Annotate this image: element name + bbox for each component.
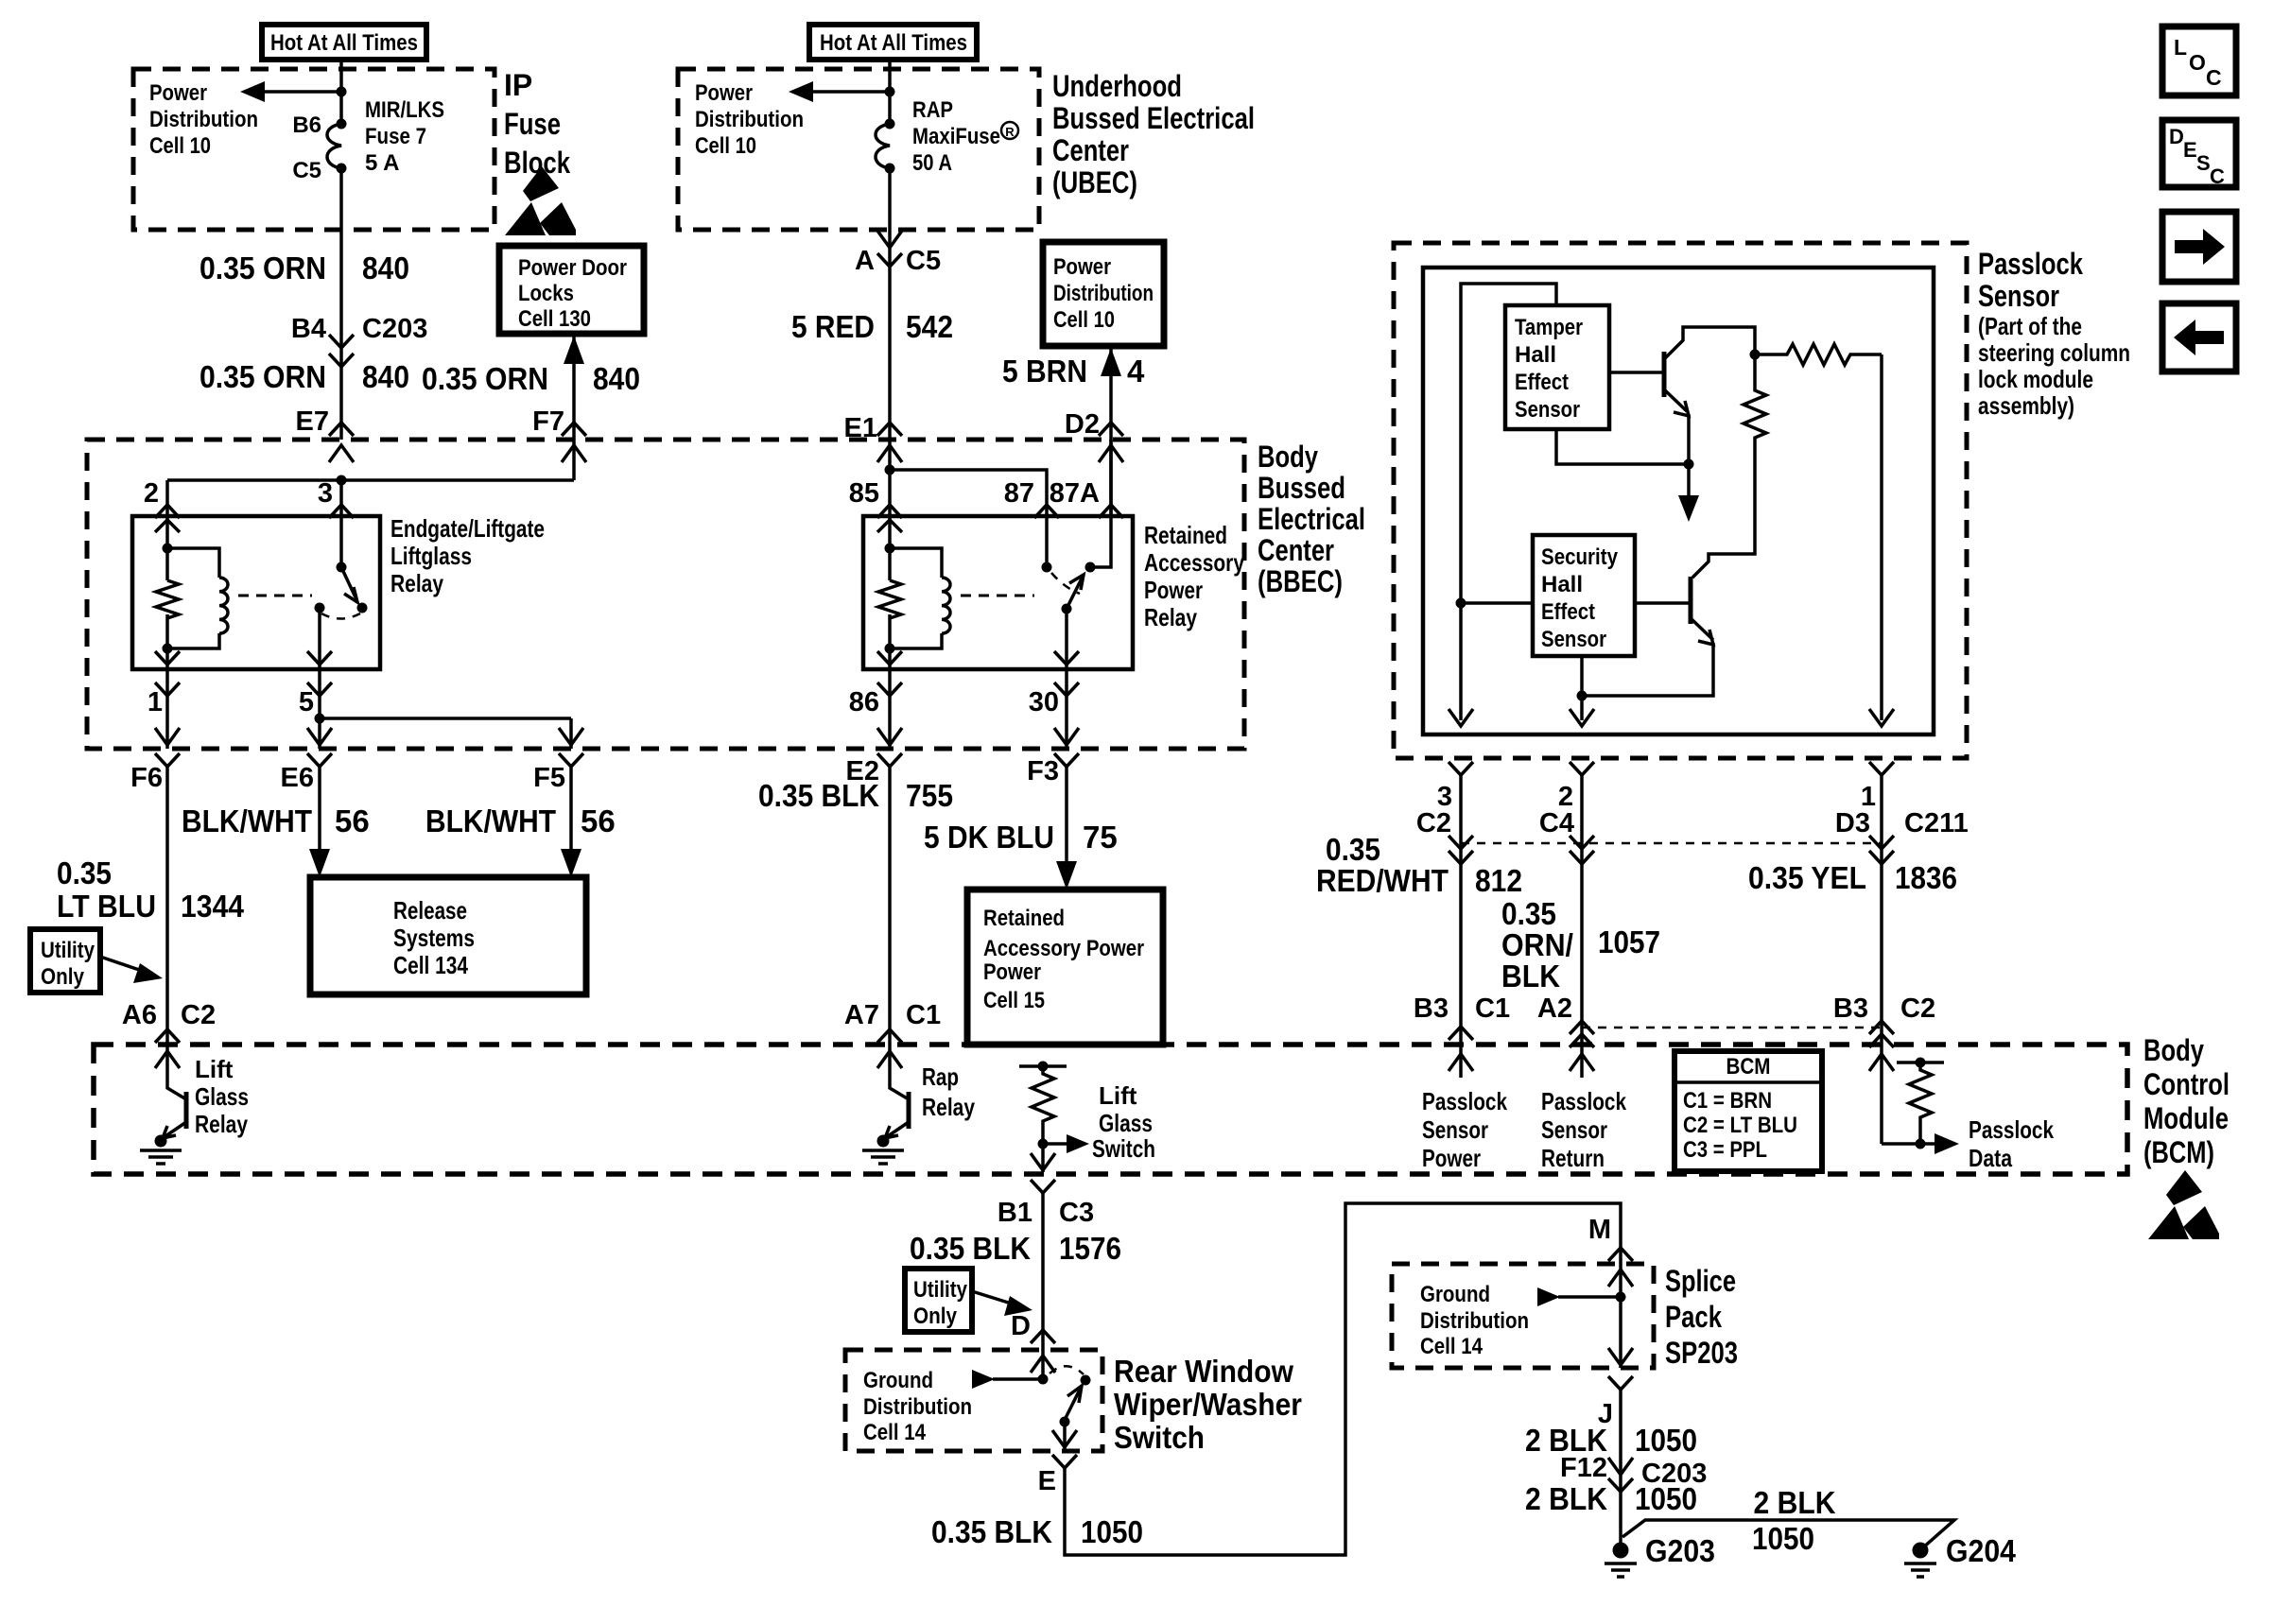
svg-text:C5: C5 <box>906 246 941 276</box>
svg-text:C2 = LT BLU: C2 = LT BLU <box>1683 1113 1797 1138</box>
connector J <box>1608 1376 1633 1390</box>
connector E <box>1052 1455 1077 1468</box>
svg-text:Sensor: Sensor <box>1422 1115 1488 1144</box>
svg-text:Cell 134: Cell 134 <box>393 951 468 979</box>
svg-text:1836: 1836 <box>1895 860 1957 895</box>
svg-text:A6: A6 <box>122 1000 157 1030</box>
svg-text:3: 3 <box>318 478 333 509</box>
svg-text:C211: C211 <box>1904 808 1969 838</box>
svg-text:0.35 BLK: 0.35 BLK <box>910 1231 1031 1266</box>
svg-text:56: 56 <box>581 803 616 838</box>
svg-text:(UBEC): (UBEC) <box>1052 165 1137 199</box>
svg-text:5 BRN: 5 BRN <box>1002 354 1087 389</box>
svg-text:Fuse: Fuse <box>504 107 561 141</box>
svg-text:M: M <box>1588 1215 1611 1245</box>
svg-text:840: 840 <box>362 359 409 394</box>
svg-text:1576: 1576 <box>1059 1231 1121 1266</box>
svg-text:Effect: Effect <box>1515 370 1569 395</box>
connector C3 pin B1 <box>1031 1180 1055 1193</box>
passlock pin 1 <box>1869 762 1894 775</box>
connector E6 <box>307 753 332 767</box>
passlock sensor power input <box>1459 1045 1463 1078</box>
transistor rap relay driver <box>877 1051 902 1068</box>
svg-text:Retained: Retained <box>1144 521 1227 549</box>
svg-text:0.35 ORN: 0.35 ORN <box>200 359 326 394</box>
svg-text:B4: B4 <box>291 314 326 344</box>
resistor lift glass switch pull-up <box>1019 1064 1067 1068</box>
svg-text:0.35 BLK: 0.35 BLK <box>931 1514 1052 1549</box>
svg-text:Security: Security <box>1541 544 1619 570</box>
svg-text:2 BLK: 2 BLK <box>1525 1481 1607 1516</box>
svg-text:D: D <box>1011 1311 1031 1341</box>
connector F6 <box>155 753 180 767</box>
svg-text:E7: E7 <box>296 406 329 437</box>
wire passlock supply (left vertical) <box>1461 284 1556 720</box>
svg-text:87A: 87A <box>1050 478 1100 509</box>
svg-text:Distribution: Distribution <box>695 107 804 132</box>
svg-text:Passlock: Passlock <box>1541 1087 1626 1115</box>
svg-text:5 RED: 5 RED <box>791 309 875 344</box>
svg-text:BCM: BCM <box>1726 1054 1771 1080</box>
wire passlock data (right vertical) <box>1880 354 1883 720</box>
node at fuse feed <box>337 87 347 97</box>
svg-text:Body: Body <box>1258 440 1318 474</box>
svg-text:75: 75 <box>1083 820 1118 855</box>
wire BBEC branch E7/F7 <box>167 478 574 482</box>
svg-text:steering column: steering column <box>1978 338 2130 367</box>
wire B1 down to wiper switch <box>1041 1193 1045 1350</box>
svg-text:Rap: Rap <box>922 1063 959 1091</box>
svg-text:SP203: SP203 <box>1665 1336 1738 1370</box>
relay coil (Endgate relay) <box>155 520 180 532</box>
svg-text:Cell 15: Cell 15 <box>983 988 1045 1013</box>
connector F5 <box>559 753 583 767</box>
splice pack node <box>1608 1270 1633 1287</box>
passlock pin 3 <box>1449 762 1473 775</box>
Endgate/Liftgate Liftglass Relay box <box>132 516 380 669</box>
svg-text:Electrical: Electrical <box>1258 502 1365 536</box>
svg-text:F3: F3 <box>1027 756 1059 786</box>
svg-text:D3: D3 <box>1835 808 1870 838</box>
Retained Accessory Power Power box <box>967 890 1163 1045</box>
svg-text:Only: Only <box>913 1304 958 1329</box>
BCM dashed box <box>94 1045 2127 1174</box>
svg-text:O: O <box>2189 50 2206 75</box>
svg-text:56: 56 <box>335 803 370 838</box>
right arrow legend box <box>2162 212 2236 282</box>
svg-text:BLK/WHT: BLK/WHT <box>425 803 556 838</box>
svg-text:755: 755 <box>906 778 953 813</box>
svg-text:840: 840 <box>362 251 409 285</box>
svg-text:MIR/LKS: MIR/LKS <box>365 97 444 123</box>
svg-text:(Part of the: (Part of the <box>1978 312 2082 340</box>
relay switch (Endgate relay) <box>339 516 343 567</box>
BCM connector table <box>1674 1051 1822 1171</box>
svg-text:Rear Window: Rear Window <box>1114 1354 1293 1389</box>
svg-text:Bussed Electrical: Bussed Electrical <box>1052 101 1255 135</box>
svg-text:Utility: Utility <box>913 1277 968 1303</box>
svg-text:Cell 14: Cell 14 <box>863 1420 927 1445</box>
svg-text:87: 87 <box>1004 478 1034 509</box>
svg-text:C4: C4 <box>1539 808 1574 838</box>
svg-text:Power: Power <box>1144 576 1203 604</box>
svg-text:Cell 10: Cell 10 <box>695 133 756 159</box>
wire pin3 to BCM <box>1459 775 1463 1045</box>
Hot At All Times label box (IP fuse block) <box>262 25 426 60</box>
wire D2 up to Power Distribution <box>1109 348 1113 516</box>
svg-text:D2: D2 <box>1065 409 1100 440</box>
svg-text:0.35: 0.35 <box>1326 832 1380 867</box>
svg-text:5 A: 5 A <box>365 150 399 176</box>
svg-text:Relay: Relay <box>922 1093 975 1121</box>
svg-text:F5: F5 <box>533 763 565 793</box>
svg-text:lock module: lock module <box>1978 365 2093 393</box>
svg-text:Body: Body <box>2143 1033 2204 1067</box>
svg-text:Utility: Utility <box>41 938 95 963</box>
Power Door Locks box <box>499 246 644 334</box>
svg-text:LT BLU: LT BLU <box>57 889 156 924</box>
Retained Accessory Power Relay box <box>863 516 1133 669</box>
svg-text:Power: Power <box>1422 1144 1481 1172</box>
node security return junction <box>1577 691 1588 701</box>
svg-text:Splice: Splice <box>1665 1264 1736 1298</box>
wire F6 down to BCM <box>165 767 169 1045</box>
svg-text:Distribution: Distribution <box>1053 281 1154 306</box>
svg-text:Distribution: Distribution <box>1420 1308 1529 1334</box>
svg-text:Systems: Systems <box>393 924 475 952</box>
svg-text:0.35: 0.35 <box>1501 896 1556 931</box>
svg-text:A7: A7 <box>844 1000 879 1030</box>
svg-text:542: 542 <box>906 309 953 344</box>
fuse RAP MaxiFuse 50A <box>885 119 895 130</box>
svg-text:C2: C2 <box>1900 993 1935 1024</box>
node Q1 emitter / tamper sensor return <box>1684 459 1694 470</box>
svg-text:B1: B1 <box>998 1198 1032 1228</box>
wire RAP fuse output down <box>888 168 892 440</box>
wire E1 to relay pin 85 and pin 87 link <box>888 440 892 516</box>
svg-text:Control: Control <box>2143 1067 2230 1101</box>
svg-text:(BBEC): (BBEC) <box>1258 564 1343 598</box>
svg-text:Power: Power <box>983 959 1041 985</box>
svg-text:C: C <box>2210 164 2225 188</box>
connector F3 <box>1054 753 1079 767</box>
wire pin1 to BCM <box>1880 775 1883 1045</box>
svg-text:S: S <box>2196 151 2211 175</box>
Passlock Sensor dashed box <box>1394 243 1967 758</box>
Release Systems box <box>310 877 586 994</box>
connector E2 <box>877 753 902 767</box>
wire security sensor power <box>1461 601 1533 605</box>
svg-text:(BCM): (BCM) <box>2143 1135 2214 1169</box>
svg-text:0.35: 0.35 <box>57 855 112 890</box>
svg-text:Hot At All Times: Hot At All Times <box>820 30 967 56</box>
svg-text:2 BLK: 2 BLK <box>1754 1485 1836 1520</box>
svg-text:Effect: Effect <box>1541 599 1595 625</box>
svg-text:1: 1 <box>147 687 163 717</box>
svg-text:Accessory: Accessory <box>1144 548 1244 577</box>
relay coil (RAP relay) <box>877 520 902 532</box>
Power Distribution Cell 10 box (D2 branch) <box>1043 242 1164 346</box>
svg-text:1057: 1057 <box>1598 924 1660 959</box>
svg-text:0.35 YEL: 0.35 YEL <box>1748 860 1866 895</box>
svg-text:Center: Center <box>1052 133 1129 167</box>
left arrow legend box <box>2162 303 2236 371</box>
svg-text:1050: 1050 <box>1635 1423 1697 1458</box>
svg-text:Relay: Relay <box>390 569 443 597</box>
svg-text:Center: Center <box>1258 533 1334 567</box>
svg-text:2: 2 <box>144 478 159 509</box>
svg-text:F7: F7 <box>532 406 564 437</box>
svg-text:Power: Power <box>695 80 753 106</box>
transistor lift glass relay driver <box>155 1051 180 1068</box>
svg-text:C1: C1 <box>906 1000 941 1030</box>
svg-text:D: D <box>2169 125 2184 148</box>
svg-text:MaxiFuse: MaxiFuse <box>912 124 1000 149</box>
svg-text:Module: Module <box>2143 1101 2229 1135</box>
svg-text:C1 = BRN: C1 = BRN <box>1683 1088 1772 1114</box>
BBEC dashed box <box>87 440 1244 749</box>
resistor passlock data pull-up <box>1880 1045 1883 1144</box>
Hot At All Times label box (UBEC) <box>809 25 977 60</box>
resistor (RAP relay) <box>878 580 901 618</box>
node pin5 branch <box>315 714 325 724</box>
DESC legend box <box>2162 120 2236 187</box>
wire from E to splice pack M <box>1065 1203 1621 1555</box>
tamper output arrow <box>1687 464 1691 499</box>
svg-text:C2: C2 <box>1416 808 1451 838</box>
svg-text:5 DK BLU: 5 DK BLU <box>924 820 1054 855</box>
svg-text:Distribution: Distribution <box>149 107 258 132</box>
svg-text:C203: C203 <box>362 314 427 344</box>
svg-text:C3: C3 <box>1059 1198 1094 1228</box>
svg-text:Sensor: Sensor <box>1541 1115 1607 1144</box>
LOC legend box <box>2162 26 2236 95</box>
Splice Pack SP203 dashed box <box>1392 1264 1654 1368</box>
wiper switch contacts <box>1031 1356 1055 1373</box>
relay actuation dashed link <box>238 595 312 597</box>
Ground Distribution Cell 14 dashed box (wiper switch) <box>845 1350 1102 1451</box>
UBEC dashed box <box>678 69 1039 230</box>
svg-text:B3: B3 <box>1414 993 1449 1024</box>
svg-text:4: 4 <box>1127 354 1145 389</box>
svg-text:Cell 130: Cell 130 <box>518 306 591 332</box>
svg-text:A2: A2 <box>1537 993 1572 1024</box>
svg-text:Lift: Lift <box>195 1055 234 1083</box>
svg-text:Switch: Switch <box>1114 1420 1205 1455</box>
svg-text:Data: Data <box>1969 1144 2012 1172</box>
svg-text:Power: Power <box>149 80 207 106</box>
power distribution feed arrow (UBEC) <box>806 90 890 94</box>
svg-text:Hall: Hall <box>1541 572 1583 597</box>
passlock sensor return input <box>1580 1045 1584 1078</box>
fuse MIR/LKS Fuse 7 5A <box>337 119 347 130</box>
svg-text:812: 812 <box>1475 863 1522 898</box>
resistor R1 (horizontal) <box>1755 344 1882 365</box>
svg-text:Cell 14: Cell 14 <box>1420 1334 1484 1359</box>
svg-text:C3 = PPL: C3 = PPL <box>1683 1137 1767 1163</box>
svg-text:0.35 ORN: 0.35 ORN <box>200 251 326 285</box>
svg-text:B6: B6 <box>292 112 321 138</box>
node collector junction <box>1750 350 1761 360</box>
resistor R2 (vertical) <box>1692 354 1766 578</box>
svg-text:86: 86 <box>849 687 879 717</box>
svg-text:Switch: Switch <box>1092 1134 1155 1163</box>
svg-text:Locks: Locks <box>518 281 574 306</box>
relay actuation dashed link (RAP) <box>961 595 1034 597</box>
svg-text:C1: C1 <box>1475 993 1510 1024</box>
svg-text:Cell 10: Cell 10 <box>149 133 211 159</box>
transistor Q1 (tamper output) <box>1609 371 1664 374</box>
wire to G204 <box>1622 1520 1954 1548</box>
svg-text:C5: C5 <box>292 158 321 183</box>
svg-text:Cell 10: Cell 10 <box>1053 307 1115 333</box>
svg-text:0.35 BLK: 0.35 BLK <box>758 778 879 813</box>
node at RAP fuse feed <box>885 87 895 97</box>
svg-text:E6: E6 <box>281 763 314 793</box>
svg-text:0.35 ORN: 0.35 ORN <box>422 361 548 396</box>
connector C5 pin A <box>877 253 902 267</box>
Passlock Sensor inner housing <box>1423 268 1934 734</box>
relay switch (RAP relay) <box>1045 516 1049 567</box>
ESD sensitive symbol (BCM) <box>2166 1170 2202 1205</box>
ground G203 <box>1613 1543 1629 1559</box>
svg-text:840: 840 <box>593 361 640 396</box>
svg-text:1050: 1050 <box>1081 1514 1143 1549</box>
svg-text:1050: 1050 <box>1635 1481 1697 1516</box>
svg-text:Tamper: Tamper <box>1515 315 1583 340</box>
IP Fuse Block dashed box <box>133 69 495 230</box>
wire from Hot At All Times into IP fuse block <box>339 60 343 124</box>
svg-text:Pack: Pack <box>1665 1300 1722 1334</box>
svg-text:Distribution: Distribution <box>863 1394 972 1420</box>
svg-text:Passlock: Passlock <box>1978 247 2083 281</box>
svg-text:Relay: Relay <box>1144 603 1197 631</box>
svg-text:Release: Release <box>393 896 467 924</box>
Tamper Hall Effect Sensor box <box>1505 305 1609 429</box>
svg-text:Bussed: Bussed <box>1258 471 1345 505</box>
svg-text:E: E <box>2183 138 2197 162</box>
svg-text:Power Door: Power Door <box>518 255 627 281</box>
svg-text:Fuse 7: Fuse 7 <box>365 124 426 149</box>
svg-text:Relay: Relay <box>195 1110 248 1138</box>
svg-text:F6: F6 <box>130 763 163 793</box>
svg-text:G204: G204 <box>1946 1533 2017 1568</box>
wire D2/87A down into relay <box>1109 440 1113 516</box>
ground G204 <box>1913 1543 1929 1559</box>
svg-text:Hall: Hall <box>1515 342 1556 368</box>
svg-text:5: 5 <box>299 687 314 717</box>
Utility Only box (left) <box>30 929 100 993</box>
svg-text:E: E <box>1038 1466 1056 1496</box>
wire pin2 to BCM <box>1580 775 1584 1045</box>
svg-text:Wiper/Washer: Wiper/Washer <box>1114 1387 1302 1422</box>
wire J to ground <box>1619 1390 1622 1550</box>
svg-text:50 A: 50 A <box>912 150 952 176</box>
svg-text:Power: Power <box>1053 254 1111 280</box>
svg-text:F12: F12 <box>1560 1453 1607 1483</box>
power distribution feed arrow (left) <box>257 90 341 94</box>
svg-text:Retained: Retained <box>983 906 1065 931</box>
svg-text:Sensor: Sensor <box>1541 627 1606 652</box>
wire pin3 down from branch to relay <box>339 480 343 516</box>
ESD sensitive symbol (IP fuse block) <box>523 166 559 201</box>
svg-text:ORN/: ORN/ <box>1501 927 1573 962</box>
svg-text:RED/WHT: RED/WHT <box>1316 863 1449 898</box>
svg-text:1344: 1344 <box>181 889 245 924</box>
wire fuse output down to BBEC <box>339 168 343 440</box>
wire pin2 up from relay to E7/F7 branch <box>165 480 169 516</box>
svg-text:B3: B3 <box>1833 993 1868 1024</box>
svg-text:30: 30 <box>1029 687 1059 717</box>
svg-text:G203: G203 <box>1645 1533 1715 1568</box>
svg-text:Underhood: Underhood <box>1052 69 1182 103</box>
svg-text:Accessory Power: Accessory Power <box>983 936 1144 961</box>
svg-text:Passlock: Passlock <box>1422 1087 1507 1115</box>
resistor (Endgate relay) <box>156 580 179 618</box>
svg-text:A: A <box>855 246 875 276</box>
svg-text:Endgate/Liftgate: Endgate/Liftgate <box>390 514 545 543</box>
ground (rap relay) <box>877 1135 890 1148</box>
svg-text:BLK: BLK <box>1501 959 1560 993</box>
Utility Only box (lower) <box>905 1269 972 1332</box>
wire from Hot At All Times into UBEC <box>888 60 892 124</box>
svg-text:Sensor: Sensor <box>1515 397 1580 423</box>
transistor Q2 (security output) <box>1635 601 1691 605</box>
svg-text:C2: C2 <box>181 1000 216 1030</box>
svg-text:Liftglass: Liftglass <box>390 542 472 570</box>
ground (lift glass relay) <box>155 1135 167 1148</box>
svg-text:Ground: Ground <box>863 1368 933 1393</box>
svg-text:Glass: Glass <box>1099 1109 1153 1137</box>
svg-text:85: 85 <box>849 478 879 509</box>
svg-text:BLK/WHT: BLK/WHT <box>182 803 312 838</box>
svg-text:Passlock: Passlock <box>1969 1115 2054 1144</box>
svg-text:Hot At All Times: Hot At All Times <box>270 30 418 56</box>
svg-text:Sensor: Sensor <box>1978 279 2059 313</box>
passlock pin 2 <box>1570 762 1594 775</box>
svg-text:RAP: RAP <box>912 97 953 123</box>
svg-text:Ground: Ground <box>1420 1282 1490 1307</box>
svg-text:L: L <box>2174 35 2187 60</box>
svg-text:assembly): assembly) <box>1978 391 2074 420</box>
svg-text:1050: 1050 <box>1752 1521 1814 1556</box>
wire F7 to Power Door Locks <box>572 336 576 480</box>
Security Hall Effect Sensor box <box>1533 535 1635 656</box>
svg-text:Only: Only <box>41 964 85 990</box>
svg-text:Glass: Glass <box>195 1082 249 1111</box>
svg-text:Lift: Lift <box>1099 1081 1137 1110</box>
svg-text:Return: Return <box>1541 1144 1605 1172</box>
svg-text:C: C <box>2206 65 2222 90</box>
svg-text:IP: IP <box>504 68 532 102</box>
connector C211 dashed line <box>1461 842 1882 845</box>
svg-text:R: R <box>1005 125 1015 139</box>
